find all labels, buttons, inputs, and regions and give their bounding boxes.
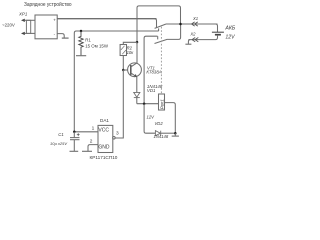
- chassis stub X2: [188, 40, 190, 44]
- svg-text:2: 2: [90, 138, 93, 144]
- C1 bottom plate: [70, 139, 80, 141]
- chassis ground below R1: [76, 55, 86, 57]
- label GND: [98, 145, 110, 151]
- pin 1 label: [92, 126, 95, 132]
- node dot X1 bypass junction: [179, 23, 182, 26]
- label X2: [189, 32, 196, 37]
- svg-text:+: +: [53, 18, 56, 23]
- label ~220V: [2, 23, 15, 28]
- wire top rail from PSU+ to top contact: [57, 18, 156, 20]
- resistor R2: [120, 45, 126, 56]
- label KR1171SP10: [90, 155, 118, 160]
- label VD1: [147, 88, 156, 93]
- wire R2 bottom to base node: [122, 56, 124, 71]
- label + of PSU: [53, 18, 56, 23]
- R2 power slashes: [121, 46, 126, 54]
- C1 plus sign: [77, 133, 80, 136]
- label - of PSU: [54, 31, 56, 36]
- wire relay node down to VD2: [144, 104, 155, 134]
- label 12V relay: [147, 115, 156, 120]
- svg-text:VCC: VCC: [98, 128, 109, 134]
- wire PSU minus to chassis: [57, 34, 64, 38]
- wire DA1 pin1: [74, 131, 98, 133]
- wire relay right terminal down: [165, 103, 176, 134]
- battery long plate: [212, 31, 224, 33]
- svg-text:АКБ: АКБ: [224, 26, 236, 32]
- battery short plate: [215, 34, 221, 36]
- svg-text:DA1: DA1: [100, 118, 109, 123]
- switch K1.1 arm pivot drop from rail: [155, 19, 157, 28]
- svg-text:3: 3: [116, 130, 119, 136]
- label R1: [85, 38, 91, 43]
- label 10k: [127, 50, 135, 55]
- svg-text:VD2: VD2: [155, 121, 164, 126]
- node dot VT1 base junction: [122, 69, 125, 72]
- wire relay left terminal: [137, 103, 159, 105]
- svg-text:GND: GND: [98, 145, 110, 151]
- svg-text:X1: X1: [192, 16, 198, 21]
- wire DA1 pin3 up to base node: [115, 70, 123, 138]
- label 10u x25V: [50, 141, 67, 146]
- svg-text:1N4148: 1N4148: [154, 134, 169, 139]
- chassis ground DA1 pin2: [82, 150, 92, 152]
- pin 2 label: [90, 138, 93, 144]
- svg-text:1: 1: [92, 126, 95, 132]
- label 1N4148 of VD2: [154, 134, 169, 139]
- label X1: [192, 16, 198, 21]
- connector XP1 label: [18, 11, 28, 16]
- wire XP1 pin1 to PSU: [25, 19, 36, 21]
- svg-text:XP1: XP1: [18, 11, 28, 16]
- C1 top plate: [70, 137, 80, 139]
- top contact fixed tick: [158, 28, 160, 31]
- node dot collector/R2 junction: [136, 41, 139, 44]
- label АКБ: [224, 26, 236, 32]
- wire from collector node to R2 top: [123, 42, 137, 44]
- VT1 base bar: [130, 65, 132, 75]
- label 1N4148 of VD1: [147, 84, 163, 89]
- transistor VT1 circle: [128, 63, 142, 77]
- wire bypass bridge from collector node over top to X1 node: [137, 6, 181, 42]
- svg-text:Рел1: Рел1: [159, 99, 164, 110]
- svg-text:10µ x25V: 10µ x25V: [50, 141, 67, 146]
- wire VD2 cathode to right node: [161, 132, 176, 134]
- label VT1: [147, 65, 155, 70]
- wire DA1 pin2 to chassis: [88, 145, 98, 152]
- svg-text:12V: 12V: [225, 35, 235, 41]
- svg-text:КТ838А: КТ838А: [146, 70, 161, 75]
- VD1 cathode bar: [134, 97, 140, 99]
- DA1 pin3 circle: [113, 137, 116, 140]
- svg-text:X2: X2: [189, 32, 196, 37]
- label Рел1 rotated: [159, 99, 164, 110]
- svg-text:R1: R1: [85, 38, 91, 43]
- wire node N5: corner at x74 down to DA1 pin1, and right to top contact: [74, 31, 158, 132]
- dashed mechanical link of relay contacts: [160, 27, 162, 94]
- node dot relay left junction: [143, 102, 146, 105]
- VT1 collector: [131, 42, 137, 67]
- wire lower contact fixed feed: from vertical x144 jog to tick: [144, 36, 157, 104]
- title Зарядное устройство: [24, 1, 72, 8]
- label 12V battery: [225, 35, 235, 41]
- svg-text:15 Ом 15W: 15 Ом 15W: [85, 43, 109, 48]
- label C1: [58, 132, 63, 137]
- node dot R1 top junction: [80, 30, 83, 33]
- label VCC: [98, 128, 109, 134]
- capacitor C1 top lead: [73, 132, 75, 138]
- chassis stub VD2 node: [174, 133, 176, 136]
- connector X1 arrows: [192, 22, 198, 26]
- label VD2: [155, 121, 164, 126]
- label DA1: [100, 118, 109, 123]
- label 15 Ом 15W: [85, 43, 109, 48]
- wire VD1 cathode to relay node: [136, 98, 138, 104]
- svg-text:КР1171СП10: КР1171СП10: [90, 155, 118, 160]
- svg-text:10к: 10к: [127, 50, 135, 55]
- resistor R1: [79, 31, 83, 55]
- VT1 emitter: [131, 73, 137, 92]
- label R2: [127, 46, 133, 51]
- connector XP1 pin arrow 1: [21, 19, 25, 22]
- IC DA1 box: [98, 125, 113, 152]
- svg-text:C1: C1: [58, 132, 63, 137]
- diode VD2: [155, 131, 160, 136]
- node dot C1 junction: [73, 131, 76, 134]
- wire XP1 pin2 to PSU: [25, 32, 36, 34]
- svg-text:VD1: VD1: [147, 88, 156, 93]
- label KT819A: [146, 70, 161, 75]
- chassis ground X2: [185, 43, 191, 45]
- switch K1.1 arm: [155, 24, 166, 28]
- wire X1 net: arm to battery: [166, 23, 218, 25]
- switch K1.2 arm: [155, 24, 181, 44]
- node dot VD2 right junction: [174, 132, 177, 135]
- battery GB1 positive lead: [216, 24, 218, 32]
- diode VD1: [134, 92, 140, 97]
- lower contact fixed tick: [157, 36, 159, 39]
- chassis ground PSU minus: [62, 37, 69, 39]
- svg-text:12V: 12V: [147, 115, 156, 120]
- VD2 cathode bar: [160, 131, 162, 136]
- connector XP1 body rectangle: [26, 20, 30, 33]
- relay K1 coil box: [159, 94, 165, 110]
- connector XP1 pin arrow 2: [21, 32, 25, 35]
- connector X2 arrows: [192, 38, 198, 42]
- chassis ground VD2 node: [172, 135, 179, 137]
- svg-text:~220V: ~220V: [2, 23, 15, 28]
- svg-text:Зарядное устройство: Зарядное устройство: [24, 1, 72, 8]
- battery negative lead to X2 wire: [188, 35, 217, 40]
- pin 3 label: [116, 130, 119, 136]
- power supply unit U1 box: [35, 15, 57, 39]
- VT1 emitter arrow: [134, 74, 137, 77]
- chassis ground C1: [70, 150, 79, 152]
- wire base node to VT1 base: [123, 69, 131, 71]
- C1 bottom lead: [73, 140, 75, 152]
